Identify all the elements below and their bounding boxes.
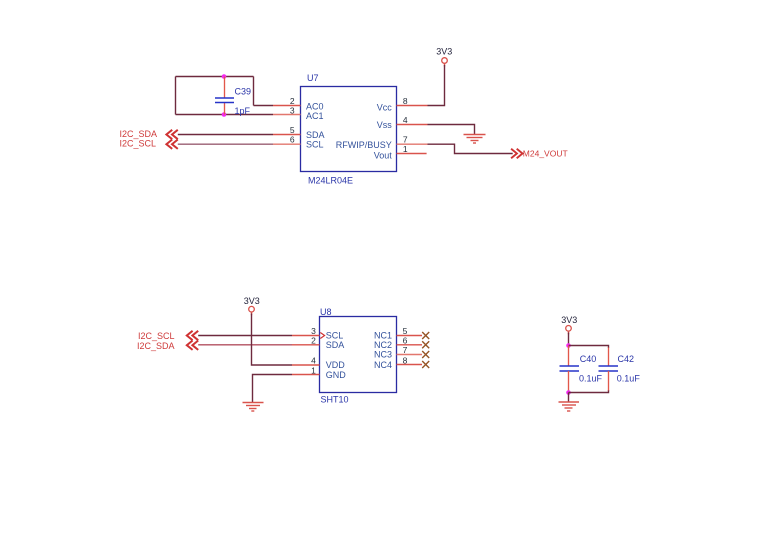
no-connect X on NC2 xyxy=(422,341,429,348)
power symbol 3V3 at U7 xyxy=(436,46,452,66)
svg-text:3V3: 3V3 xyxy=(561,315,577,325)
svg-text:5: 5 xyxy=(290,125,295,135)
svg-text:3V3: 3V3 xyxy=(244,296,260,306)
svg-text:C42: C42 xyxy=(618,354,635,364)
wire into pin 2 xyxy=(254,105,274,107)
wire top rail xyxy=(569,346,609,349)
svg-text:2: 2 xyxy=(311,335,316,345)
port arrow I2C_SDA at U8 xyxy=(187,341,198,350)
svg-text:SCL: SCL xyxy=(306,140,324,150)
wire pin 4 to ground xyxy=(428,125,475,135)
svg-text:C39: C39 xyxy=(235,86,252,96)
svg-text:SHT10: SHT10 xyxy=(321,394,349,404)
power symbol 3V3 at C40 xyxy=(561,315,577,334)
pin 7 stub xyxy=(397,143,428,145)
wire pin 7 to M24_VOUT xyxy=(428,144,513,153)
svg-text:0.1uF: 0.1uF xyxy=(579,373,603,383)
wire GND to ground xyxy=(253,375,293,403)
svg-text:1: 1 xyxy=(403,144,408,154)
no-connect X on NC3 xyxy=(422,351,429,358)
svg-text:1pF: 1pF xyxy=(235,106,251,116)
capacitor C40 plates xyxy=(560,366,580,371)
wire I2C_SCL to pin 6 xyxy=(178,143,273,145)
svg-text:NC3: NC3 xyxy=(374,350,392,360)
wire 3V3 down to VDD xyxy=(252,314,293,366)
pin 6 NC2 stub xyxy=(397,344,423,346)
svg-text:I2C_SCL: I2C_SCL xyxy=(138,331,175,341)
svg-text:3V3: 3V3 xyxy=(436,46,452,56)
wire C39 loop top xyxy=(176,76,254,78)
pin 3 stub U8 xyxy=(292,335,320,337)
capacitor C40 bottom lead xyxy=(568,371,570,393)
svg-text:NC1: NC1 xyxy=(374,330,392,340)
wire I2C_SDA to pin 5 xyxy=(178,134,273,136)
svg-text:6: 6 xyxy=(290,135,295,145)
svg-text:SDA: SDA xyxy=(306,130,325,140)
wire bottom rail xyxy=(569,390,609,393)
svg-text:2: 2 xyxy=(290,96,295,106)
wire I2C_SCL to pin 3 xyxy=(198,335,292,337)
port arrow I2C_SDA xyxy=(166,130,177,139)
pin 8 stub xyxy=(397,105,428,107)
node junction top of C39 xyxy=(222,74,227,79)
pin 3 stub xyxy=(273,114,301,116)
svg-text:GND: GND xyxy=(326,370,347,380)
no-connect X on NC1 xyxy=(422,332,429,339)
ground symbol at C40 xyxy=(559,402,580,411)
capacitor C42 plates xyxy=(599,366,619,371)
wire 3V3 down to pin 8 xyxy=(428,65,445,106)
svg-text:AC1: AC1 xyxy=(306,111,324,121)
svg-text:Vcc: Vcc xyxy=(377,102,393,112)
port arrow M24_VOUT xyxy=(511,149,522,158)
svg-text:U8: U8 xyxy=(320,307,332,317)
node junction top rail xyxy=(566,343,571,348)
no-connect X on NC4 xyxy=(422,361,429,368)
capacitor C42 bottom lead xyxy=(608,371,610,391)
capacitor C39 plates xyxy=(215,98,234,103)
svg-text:U7: U7 xyxy=(307,73,319,83)
pin 8 NC4 stub xyxy=(397,364,423,366)
pin 7 NC3 stub xyxy=(397,354,423,356)
svg-text:4: 4 xyxy=(311,356,316,366)
wire I2C_SDA to pin 2 xyxy=(198,344,292,346)
svg-text:I2C_SCL: I2C_SCL xyxy=(119,139,156,149)
wire right vertical to pin 2 xyxy=(253,77,255,106)
wire C39 bottom to pin 3 xyxy=(176,114,274,116)
pin 4 stub xyxy=(397,124,428,126)
port arrow I2C_SCL xyxy=(166,140,177,149)
capacitor C39 top lead xyxy=(224,77,226,99)
capacitor C39 bottom lead xyxy=(224,103,226,115)
power symbol 3V3 at U8 xyxy=(244,296,260,315)
ground symbol at U7 xyxy=(464,135,486,144)
node junction bottom of C39 xyxy=(222,112,227,117)
ground symbol at U8 xyxy=(243,403,264,412)
svg-text:M24LR04E: M24LR04E xyxy=(308,175,353,185)
svg-text:Vout: Vout xyxy=(374,150,393,160)
svg-text:0.1uF: 0.1uF xyxy=(617,373,641,383)
svg-text:VDD: VDD xyxy=(326,360,346,370)
capacitor C40 top lead xyxy=(568,346,570,367)
svg-text:Vss: Vss xyxy=(377,120,393,130)
wire 3V3 to top rail xyxy=(568,333,570,346)
svg-text:4: 4 xyxy=(403,115,408,125)
pin SCL input mark xyxy=(320,333,324,339)
svg-text:8: 8 xyxy=(403,96,408,106)
pin 2 stub xyxy=(273,105,301,107)
wire C39 loop left vertical xyxy=(175,77,177,115)
IC U8 body xyxy=(320,317,397,393)
svg-text:5: 5 xyxy=(403,326,408,336)
pin 1 stub xyxy=(397,153,427,155)
svg-text:C40: C40 xyxy=(580,354,597,364)
svg-text:6: 6 xyxy=(403,335,408,345)
svg-text:NC2: NC2 xyxy=(374,340,392,350)
pin 5 stub xyxy=(273,134,301,136)
node junction bottom rail xyxy=(566,390,571,395)
pin 1 stub U8 GND xyxy=(292,374,320,376)
svg-text:M24_VOUT: M24_VOUT xyxy=(523,149,568,159)
port arrow I2C_SCL at U8 xyxy=(187,331,198,340)
pin 4 stub U8 xyxy=(292,364,320,366)
svg-text:SDA: SDA xyxy=(326,340,345,350)
svg-text:NC4: NC4 xyxy=(374,360,392,370)
svg-text:I2C_SDA: I2C_SDA xyxy=(119,129,157,139)
svg-text:I2C_SDA: I2C_SDA xyxy=(137,341,175,351)
capacitor C42 top lead xyxy=(608,348,610,367)
svg-text:RFWIP/BUSY: RFWIP/BUSY xyxy=(336,140,392,150)
pin 5 NC1 stub xyxy=(397,335,423,337)
pin 2 stub U8 xyxy=(292,344,320,346)
wire junction to ground at C40 xyxy=(568,393,570,403)
IC U7 body xyxy=(301,87,397,172)
svg-text:7: 7 xyxy=(403,345,408,355)
pin 6 stub xyxy=(273,143,301,145)
